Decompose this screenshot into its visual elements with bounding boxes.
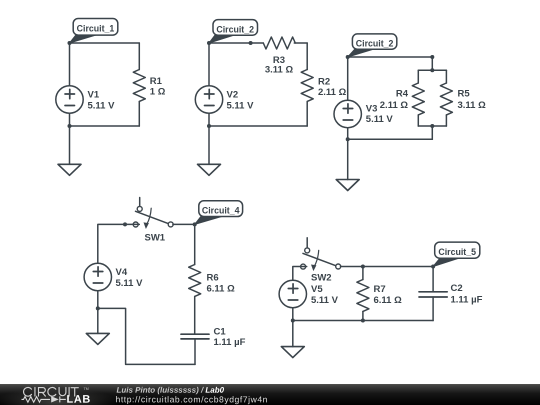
node A4 dot — [193, 222, 197, 226]
svg-text:5.11 V: 5.11 V — [227, 101, 255, 112]
ground circuit 5 — [281, 347, 304, 358]
label flag Circuit_2 (second) — [348, 34, 397, 57]
voltage source V1 — [56, 86, 83, 113]
svg-text:http://circuitlab.com/ccb8ydgf: http://circuitlab.com/ccb8ydgf7jw4n — [115, 394, 268, 404]
svg-text:2.11 Ω: 2.11 Ω — [318, 87, 347, 98]
junction dot R7 bottom — [361, 319, 365, 323]
label V3 5.11 V — [366, 104, 394, 125]
wire top rail circuit 2 — [209, 42, 251, 44]
wire SW2 to node A5 — [341, 266, 434, 268]
wire bottom rail circuit 3 — [348, 138, 433, 140]
svg-text:2.11 Ω: 2.11 Ω — [380, 100, 409, 111]
switch SW2 — [301, 238, 341, 271]
wire V2 bottom lead — [208, 113, 210, 126]
svg-text:R1: R1 — [150, 76, 163, 87]
CircuitLab logo wordmark CIRCUIT — [24, 387, 79, 396]
logo background glow — [0, 388, 118, 405]
wire down from parallel bottom — [431, 126, 433, 139]
node A1 dot — [68, 41, 72, 45]
svg-text:R5: R5 — [458, 89, 471, 100]
label R4 2.11 ohm — [380, 89, 409, 112]
label V2 5.11 V — [227, 90, 255, 112]
wire to ground circuit 2 — [208, 126, 210, 164]
svg-text:V4: V4 — [116, 267, 128, 278]
svg-text:5.11 V: 5.11 V — [88, 101, 116, 112]
wire V1 top lead — [69, 43, 71, 86]
node A3 dot — [346, 55, 350, 59]
node junction dot circuit 3 bottom — [346, 137, 350, 141]
junction dot R7 top — [361, 265, 365, 269]
ground circuit 1 — [58, 164, 81, 175]
wire V3 bottom lead — [347, 128, 349, 140]
label SW2 V5 5.11 V — [311, 273, 339, 307]
wire V3 top lead — [347, 57, 349, 100]
label R1 1 ohm — [150, 76, 166, 98]
capacitor C2 — [419, 267, 447, 321]
label R7 6.11 ohm — [374, 284, 403, 306]
junction dot top rail circuit 3 — [430, 55, 434, 59]
svg-text:1.11 µF: 1.11 µF — [451, 295, 483, 306]
svg-text:1 Ω: 1 Ω — [150, 87, 166, 98]
wire to ground circuit 5 — [292, 321, 294, 347]
node A5 dot — [431, 265, 435, 269]
svg-text:5.11 V: 5.11 V — [311, 295, 339, 306]
ground circuit 4 — [86, 333, 109, 344]
label SW1 — [145, 233, 166, 244]
svg-text:R6: R6 — [207, 273, 219, 284]
svg-text:Luis Pinto (luissssss) / Lab0: Luis Pinto (luissssss) / Lab0 — [116, 386, 224, 395]
svg-text:6.11 Ω: 6.11 Ω — [374, 295, 403, 306]
svg-text:Circuit_2: Circuit_2 — [216, 24, 254, 34]
label C1 1.11 uF — [214, 326, 246, 348]
svg-text:V2: V2 — [227, 90, 239, 101]
svg-text:LAB: LAB — [66, 394, 90, 405]
resistor R7 — [357, 267, 369, 321]
resistor R1 — [133, 43, 145, 126]
node A2 dot — [207, 41, 211, 45]
junction dot left of SW1 — [123, 222, 127, 226]
svg-text:R2: R2 — [318, 76, 330, 87]
junction dot wire/R3 — [249, 41, 253, 45]
svg-text:1.11 µF: 1.11 µF — [214, 337, 246, 348]
label R5 3.11 ohm — [458, 89, 487, 112]
svg-text:Circuit_1: Circuit_1 — [77, 24, 115, 34]
label flag Circuit_4 — [195, 201, 243, 225]
wire bottom rail circuit 1 — [70, 125, 140, 127]
label flag Circuit_2 — [209, 20, 258, 43]
wire bottom rail circuit 5 — [293, 320, 433, 322]
wire parallel bottom bar — [418, 125, 446, 127]
wire V4 bottom lead — [97, 291, 99, 309]
label V1 5.11 V — [88, 90, 116, 112]
svg-text:5.11 V: 5.11 V — [366, 114, 394, 125]
voltage source V3 — [334, 100, 361, 127]
node junction dot circuit 4 bottom — [96, 306, 100, 310]
svg-text:Circuit_2: Circuit_2 — [356, 38, 394, 48]
wire SW1 to node A4 — [173, 223, 195, 225]
svg-text:6.11 Ω: 6.11 Ω — [207, 284, 236, 295]
ground circuit 2 — [198, 164, 221, 175]
resistor R3 — [251, 37, 308, 49]
wire top rail circuit 3 — [348, 56, 433, 58]
label R2 2.11 ohm — [318, 76, 347, 98]
svg-text:SW2: SW2 — [311, 273, 332, 284]
junction dot parallel bottom — [430, 124, 434, 128]
svg-text:R4: R4 — [396, 89, 409, 100]
resistor R2 — [301, 70, 313, 127]
label flag Circuit_1 — [70, 19, 118, 44]
wire bottom return circuit 4 — [98, 308, 195, 364]
junction dot parallel top — [430, 68, 434, 72]
capacitor C1 — [181, 334, 209, 364]
wire down to parallel bar — [431, 57, 433, 70]
svg-text:Circuit_5: Circuit_5 — [438, 247, 476, 257]
wire V4 top lead and corner — [98, 224, 140, 263]
svg-text:V1: V1 — [88, 90, 100, 101]
svg-text:C2: C2 — [451, 283, 463, 294]
svg-text:SW1: SW1 — [145, 233, 166, 244]
wire V2 top lead — [208, 43, 210, 86]
resistor R5 — [440, 70, 452, 126]
label R3 3.11 ohm — [265, 55, 294, 76]
label V4 5.11 V — [116, 267, 144, 289]
svg-text:C1: C1 — [214, 326, 227, 337]
svg-text:TM: TM — [84, 387, 89, 391]
wire V5 bottom lead — [292, 308, 294, 321]
wire V1 bottom lead — [69, 113, 71, 126]
svg-text:5.11 V: 5.11 V — [116, 278, 144, 289]
wire to ground circuit 1 — [69, 126, 71, 164]
logo resistor zigzag and diode — [22, 396, 66, 402]
wire top rail circuit 1 — [70, 42, 140, 44]
label C2 1.11 uF — [451, 283, 483, 306]
wire bottom rail circuit 2 — [209, 125, 307, 127]
wire V5 top lead and corner — [293, 267, 307, 281]
wire to ground circuit 3 — [347, 139, 349, 179]
voltage source V2 — [195, 86, 222, 113]
resistor R4 — [412, 70, 424, 126]
wire corner to R2 — [306, 43, 308, 70]
svg-text:3.11 Ω: 3.11 Ω — [458, 100, 487, 111]
node junction dot circuit 5 bottom left — [291, 319, 295, 323]
wire parallel top bar — [418, 69, 446, 71]
svg-text:R7: R7 — [374, 284, 386, 295]
ground circuit 3 — [336, 180, 359, 191]
voltage source V4 — [84, 263, 111, 290]
footer bar — [0, 384, 540, 405]
voltage source V5 — [279, 280, 306, 307]
wire to ground circuit 4 — [97, 308, 99, 333]
node junction dot circuit 1 bottom — [68, 124, 72, 128]
svg-text:V5: V5 — [311, 284, 323, 295]
label flag Circuit_5 — [433, 242, 480, 266]
node junction dot circuit 2 bottom — [207, 124, 211, 128]
label R6 6.11 ohm — [207, 273, 236, 295]
switch SW1 — [133, 198, 173, 230]
svg-text:3.11 Ω: 3.11 Ω — [265, 65, 294, 76]
resistor R6 — [189, 224, 201, 334]
svg-text:Circuit_4: Circuit_4 — [202, 205, 240, 215]
